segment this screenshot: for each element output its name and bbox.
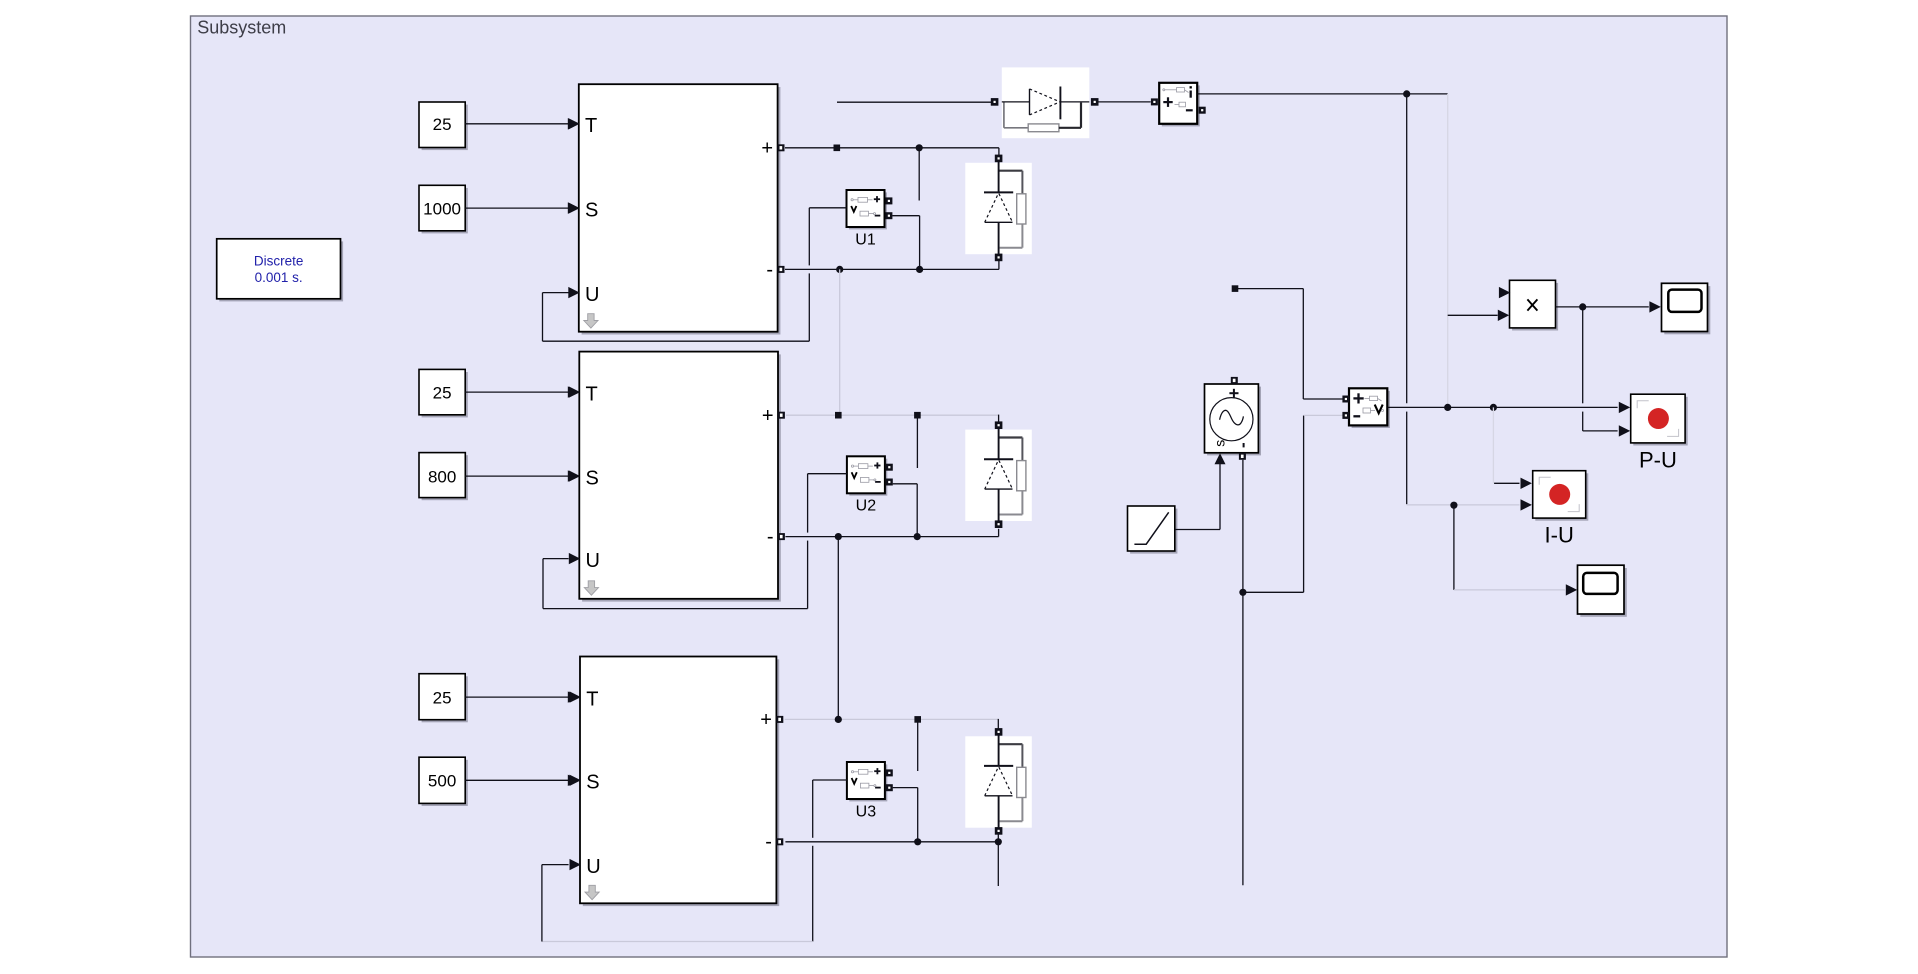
voltage source top + port <box>1231 377 1238 384</box>
svg-text:+: + <box>762 405 774 427</box>
wire PV2 - bus <box>785 536 998 538</box>
svg-text:U3: U3 <box>856 803 877 820</box>
svg-text:I-U: I-U <box>1545 522 1574 547</box>
junction on PV2 - bus 2 <box>914 533 921 540</box>
product top input arrow <box>1499 287 1510 298</box>
junction on PV2 + bus <box>835 412 842 419</box>
bypass diode block D1 (white icon area) <box>965 163 1032 254</box>
wire voltage source - down <box>1242 460 1244 886</box>
wire junction to v-meter - riser <box>1243 591 1304 593</box>
D3 diode symbol <box>998 735 1000 766</box>
PV1 output port + <box>778 144 785 151</box>
wire 25 to T (row2) <box>465 391 568 393</box>
svg-text:U: U <box>586 856 600 878</box>
svg-text:25: 25 <box>433 688 452 707</box>
svg-text:U2: U2 <box>856 498 877 515</box>
junction on voltage source - wire <box>1239 589 1246 596</box>
junction on PV3 + bus 2 <box>914 716 921 723</box>
diode D symbol <box>1002 101 1030 103</box>
diode D right port <box>1091 98 1099 106</box>
svg-text:+: + <box>761 138 773 160</box>
unconnected wire to series diode (top) <box>837 101 991 103</box>
faint wire riser to v-meter - port <box>1304 414 1343 416</box>
wire 1000 to S (row1) <box>465 207 568 209</box>
stub from + bus junction to U1 + port <box>918 148 920 201</box>
PV2 output port - <box>778 533 785 540</box>
D1 parallel resistor branch <box>999 170 1023 172</box>
XY graph block I-U <box>1535 473 1588 520</box>
v-meter + port <box>1342 396 1349 403</box>
PV3 output port - <box>776 838 783 845</box>
feedback riser to U input (row3) <box>541 865 543 942</box>
constant block 1000 (row1 S) <box>422 188 468 234</box>
wire 800 to S (row2) <box>465 475 568 477</box>
svg-text:S: S <box>585 199 598 221</box>
wire product output to scope <box>1556 306 1649 308</box>
svg-text:s: s <box>1211 440 1227 447</box>
wire U2 output feedback to PV2 U input <box>808 473 847 475</box>
junction on PV2 + bus 2 <box>914 412 921 419</box>
stub + bus to D2 top port <box>998 415 1000 422</box>
svg-text:25: 25 <box>433 383 452 402</box>
voltage source s input arrow <box>1215 453 1226 464</box>
svg-text:800: 800 <box>428 467 456 486</box>
D3 top port <box>995 728 1003 736</box>
junction on i output wire <box>1403 90 1410 97</box>
ultra faint drop to I-U input <box>1492 407 1494 483</box>
junction on PV1 + bus <box>834 145 841 152</box>
scope bottom input arrow <box>1566 584 1577 595</box>
junction on v wire 2 <box>1490 404 1497 411</box>
PV subsystem block PV2 <box>582 354 781 601</box>
wire ramp output to voltage source s input <box>1175 529 1220 531</box>
svg-text:500: 500 <box>428 772 456 791</box>
svg-text:-: - <box>766 259 773 281</box>
svg-text:T: T <box>586 383 598 405</box>
D1 top port <box>995 155 1003 163</box>
U1 terminal ports + - <box>885 197 892 204</box>
controlled voltage source block <box>1207 387 1261 456</box>
voltage measurement block U1 <box>849 192 887 229</box>
junction on PV3 - bus <box>914 838 921 845</box>
faint wire PV2 + bus <box>786 414 999 416</box>
svg-text:U: U <box>585 284 599 306</box>
PV2 gray subsystem arrow icon <box>584 581 598 595</box>
D2 diode symbol <box>998 429 1000 460</box>
svg-text:25: 25 <box>433 115 452 134</box>
wire PV3 - bus <box>785 841 1001 843</box>
PV subsystem block PV3 <box>583 659 779 906</box>
svg-text:Subsystem: Subsystem <box>197 18 286 38</box>
wire PV1 + bus <box>785 147 999 149</box>
wire i output <box>1197 93 1447 95</box>
wire junction down <box>1453 505 1455 590</box>
wire U1 output feedback to PV1 U input <box>809 207 846 209</box>
junction on PV3 + bus <box>835 716 842 723</box>
svg-text:U: U <box>586 550 600 572</box>
svg-text:U1: U1 <box>855 231 876 248</box>
junction on PV1 - bus 2 <box>916 266 923 273</box>
v-meter - port <box>1342 412 1349 419</box>
XY graph block P-U <box>1633 397 1687 446</box>
svg-text:S: S <box>586 772 599 794</box>
voltage measurement block U3 <box>849 764 887 801</box>
PV subsystem block PV1 <box>582 87 781 335</box>
D1 bottom port <box>995 254 1003 262</box>
wire U3 output feedback to PV3 U input <box>813 779 847 781</box>
powergui block Discrete 0.001 s. <box>219 241 343 301</box>
faint feedback bottom wire (row3) <box>542 941 813 943</box>
wire 25 to T (row3) <box>465 696 568 698</box>
bypass diode block D2 (white icon area) <box>965 430 1032 521</box>
PV1 input arrows T S U <box>568 118 579 129</box>
constant block 25 (row1 T) <box>422 105 468 151</box>
voltage source bottom - port <box>1239 453 1246 460</box>
current measurement block i <box>1162 85 1200 126</box>
D1 diode symbol <box>998 162 1000 193</box>
junction on PV1 + bus 2 <box>916 144 923 151</box>
PV3 gray subsystem arrow icon <box>585 885 599 899</box>
svg-text:-: - <box>767 526 774 548</box>
current measurement left terminal port <box>1151 98 1158 105</box>
junction on v wire <box>1444 404 1451 411</box>
ramp block <box>1130 509 1177 554</box>
wire PV1 - bus <box>785 268 999 270</box>
diode D3 tail wire below - bus <box>997 834 999 886</box>
faint vertical wire i to product input <box>1447 94 1449 408</box>
svg-text:T: T <box>586 688 598 710</box>
stub from + bus junction to U3 + port <box>917 719 919 771</box>
wire product output down to P-U second input <box>1582 307 1584 403</box>
voltage measurement block U2 <box>849 459 887 496</box>
svg-text:Discrete: Discrete <box>254 254 304 269</box>
wire stub to v-meter + input <box>1232 285 1239 292</box>
junction on faint i wire <box>1450 502 1457 509</box>
wire 500 to S (row3) <box>465 779 568 781</box>
svg-text:S: S <box>586 467 599 489</box>
wire PV2 - bus to PV3 + bus <box>837 537 839 720</box>
stub + bus to D3 top port <box>997 719 999 729</box>
constant block 800 (row2 S) <box>422 455 468 500</box>
scope block (top) <box>1664 286 1710 334</box>
faint wire PV3 + bus <box>785 718 999 720</box>
U2 terminal ports + - <box>886 464 893 471</box>
wire U1 - port to - bus <box>892 215 919 217</box>
svg-text:1000: 1000 <box>423 199 461 218</box>
constant block 500 (row3 S) <box>422 760 468 806</box>
faint wire to bottom scope <box>1454 589 1565 591</box>
wire U3 - port to - bus <box>893 787 918 789</box>
PV2 input arrows T S U <box>569 386 580 397</box>
PV1 output port - <box>778 266 785 273</box>
faint wire i drop to I-U bottom input <box>1407 504 1520 506</box>
junction PV3 - bus at diode tail <box>995 838 1002 845</box>
voltage measurement block v <box>1352 391 1390 428</box>
svg-text:0.001 s.: 0.001 s. <box>255 270 303 285</box>
junction on PV1 - bus <box>836 266 843 273</box>
wire v output to P-U <box>1388 406 1618 408</box>
current measurement - terminal port <box>1199 107 1206 114</box>
svg-text:P-U: P-U <box>1639 447 1677 472</box>
D3 parallel resistor branch <box>999 743 1023 745</box>
U3 terminal ports + - <box>886 769 893 776</box>
svg-text:T: T <box>585 115 597 137</box>
wire U2 - port to - bus <box>893 483 918 485</box>
diode D left port <box>991 98 999 106</box>
product block x <box>1512 283 1558 331</box>
D2 bottom port <box>995 520 1003 528</box>
constant block 25 (row3 T) <box>422 676 468 722</box>
faint wire PV1 - bus to PV2 + bus <box>839 269 841 415</box>
series diode block D (white icon area) <box>1002 67 1090 138</box>
junction on product output <box>1579 303 1586 310</box>
diode D snubber RC branch <box>1003 102 1005 128</box>
wire 25 to T (row1) <box>465 123 568 125</box>
D2 parallel resistor branch <box>999 436 1023 438</box>
svg-text:+: + <box>760 709 772 731</box>
PV1 gray subsystem arrow icon <box>584 314 598 328</box>
stub from + bus junction to U2 + port <box>916 415 918 468</box>
product bottom input arrow and wire <box>1448 314 1498 316</box>
PV2 output port + <box>778 412 785 419</box>
wire diode D to current measurement <box>1098 101 1151 103</box>
scope block (bottom) <box>1580 568 1627 617</box>
constant block 25 (row2 T) <box>422 372 468 417</box>
junction on PV2 - bus <box>835 533 842 540</box>
svg-text:-: - <box>765 831 772 853</box>
PV3 output port + <box>776 716 783 723</box>
bypass diode block D3 (white icon area) <box>965 736 1032 827</box>
D2 top port <box>995 421 1003 429</box>
vertical wire from i junction down <box>1406 94 1408 403</box>
D3 bottom port <box>995 827 1003 835</box>
PV3 input arrows T S U <box>570 691 581 702</box>
I-U top input wire <box>1494 482 1519 484</box>
